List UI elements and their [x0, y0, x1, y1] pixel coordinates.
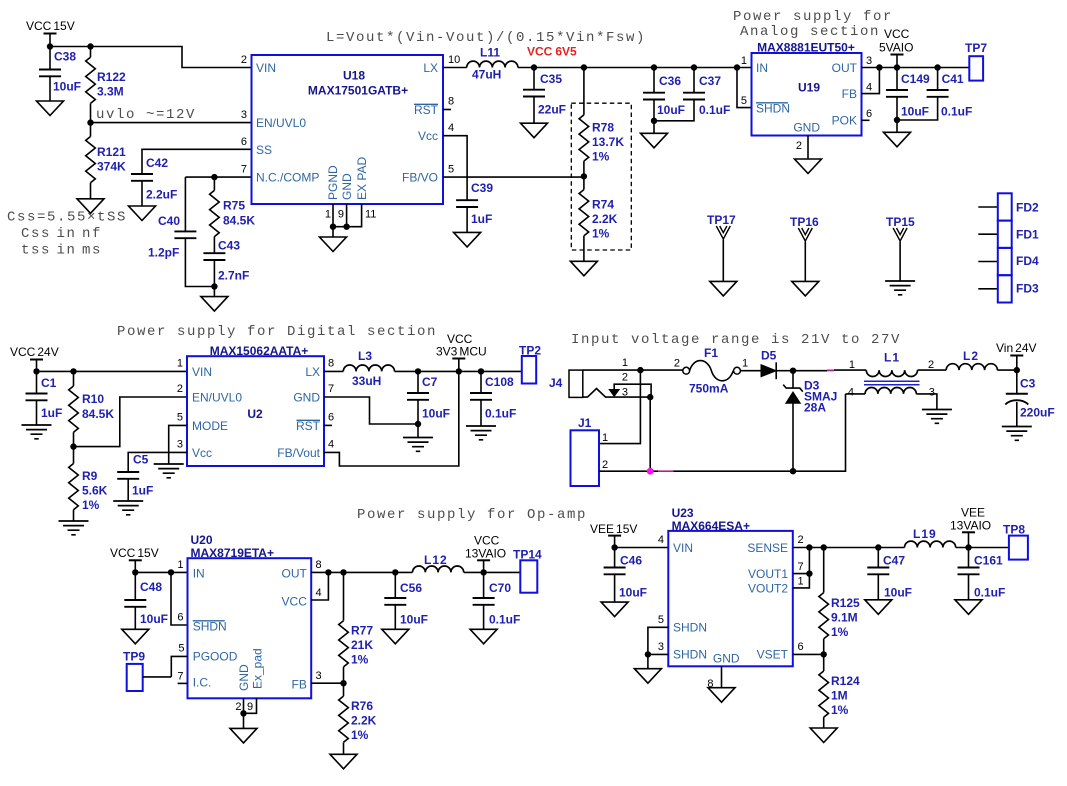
svg-text:10uF: 10uF — [53, 80, 81, 94]
node D3 top junction — [790, 368, 796, 374]
svg-text:R77: R77 — [351, 624, 373, 638]
svg-text:PGND: PGND — [326, 165, 340, 200]
svg-text:uvlo ~=12V: uvlo ~=12V — [96, 107, 196, 123]
U20 I.C. stub pin 7 — [178, 682, 188, 684]
svg-text:MAX17501GATB+: MAX17501GATB+ — [308, 84, 408, 98]
U2 pin names — [192, 365, 321, 460]
node SHDN junction — [168, 569, 174, 575]
earth ground below C7 — [403, 438, 433, 452]
resistor R76 2.2K 1% — [339, 683, 377, 754]
svg-text:8: 8 — [316, 559, 322, 571]
node EN junction — [87, 119, 93, 125]
regulator U23 MAX664ESA+ box — [668, 506, 793, 666]
node C56 junction — [392, 569, 398, 575]
earth ground below C1 — [22, 425, 52, 439]
wire Vcc pin 4 to C39 — [443, 136, 467, 201]
svg-text:5: 5 — [658, 614, 664, 626]
capacitor C5 1uF — [117, 453, 153, 502]
svg-text:Analog section: Analog section — [740, 24, 880, 40]
wire FB pin 3 — [311, 682, 343, 684]
node C48 junction — [132, 569, 138, 575]
ground below C48 — [122, 629, 149, 644]
svg-text:2: 2 — [177, 383, 183, 395]
svg-text:U20: U20 — [191, 533, 213, 547]
wire VEE to U23 VIN pin 4 — [615, 547, 669, 549]
VCC 24V bar — [30, 360, 43, 372]
node FB junction — [340, 680, 346, 686]
node D3 bottom junction — [790, 468, 796, 474]
svg-text:7: 7 — [177, 671, 183, 683]
svg-text:C47: C47 — [883, 554, 905, 568]
svg-text:C36: C36 — [659, 74, 681, 88]
ground below U19 — [795, 159, 822, 174]
wire to U19 SHDN pin 5 — [737, 68, 752, 108]
node ground rail magenta junction — [647, 468, 654, 475]
svg-text:1: 1 — [742, 358, 748, 370]
svg-text:VOUT2: VOUT2 — [748, 582, 788, 596]
ground below C36 — [641, 133, 668, 148]
svg-text:Vcc: Vcc — [418, 129, 438, 143]
wire L12 to C70 — [464, 571, 521, 573]
svg-text:4: 4 — [658, 534, 664, 546]
svg-text:C7: C7 — [422, 375, 438, 389]
wire to U18 VIN pin 2 — [91, 47, 252, 68]
svg-text:FD3: FD3 — [1016, 282, 1039, 296]
wire R122 bottom to EN junction — [90, 103, 92, 122]
svg-text:Ex_pad: Ex_pad — [251, 648, 265, 689]
svg-text:SHDN: SHDN — [756, 102, 790, 116]
node C37 junction — [691, 64, 697, 70]
wire TP9 to PGOOD — [143, 676, 172, 678]
svg-text:U18: U18 — [343, 69, 365, 83]
earth ground below C3 — [1002, 427, 1032, 441]
node C3 junction — [1014, 367, 1020, 373]
wire ground rail to D3 — [654, 470, 794, 472]
node R125 junction — [821, 544, 827, 550]
svg-text:5: 5 — [741, 95, 747, 107]
resistor R121 374K — [86, 123, 126, 199]
wire PGOOD pin 5 — [171, 656, 187, 677]
svg-text:EX PAD: EX PAD — [355, 157, 369, 200]
svg-text:J4: J4 — [549, 376, 563, 390]
svg-text:TP16: TP16 — [790, 215, 819, 229]
test point TP8 — [1003, 523, 1028, 560]
svg-text:2: 2 — [796, 140, 802, 152]
svg-text:4: 4 — [866, 82, 872, 94]
note uvlo — [96, 107, 196, 123]
note Css formula — [7, 210, 127, 259]
svg-text:R78: R78 — [592, 121, 614, 135]
svg-text:9: 9 — [247, 701, 253, 713]
J4 pin numbers — [622, 357, 628, 398]
node C1 junction — [33, 368, 39, 374]
ground below C47 — [865, 600, 892, 615]
svg-text:U23: U23 — [672, 506, 694, 520]
inductor L1 upper winding — [849, 351, 934, 377]
regulator U2 MAX15062AATA+ box — [187, 344, 324, 466]
svg-text:POK: POK — [832, 114, 857, 128]
VCC 3V3MCU bar — [452, 359, 465, 372]
svg-text:5.6K: 5.6K — [82, 484, 108, 498]
svg-text:3: 3 — [622, 386, 628, 398]
svg-text:10uF: 10uF — [657, 103, 685, 117]
node C7 bottom junction — [415, 421, 421, 438]
test point TP9 — [123, 650, 145, 692]
VCC 5VAIO bar — [891, 55, 904, 68]
svg-text:C37: C37 — [699, 74, 721, 88]
svg-text:6: 6 — [798, 641, 804, 653]
ground below R74 — [570, 261, 597, 276]
svg-text:SHDN: SHDN — [193, 620, 227, 634]
svg-text:TP7: TP7 — [965, 41, 987, 55]
svg-text:3: 3 — [241, 109, 247, 121]
wire fuse to D5 — [740, 370, 761, 372]
svg-text:3V3MCU: 3V3MCU — [436, 345, 487, 359]
svg-text:2: 2 — [235, 701, 241, 713]
svg-text:1: 1 — [798, 576, 804, 588]
resistor R122 3.3M — [86, 47, 126, 104]
svg-text:N.C./COMP: N.C./COMP — [256, 171, 319, 185]
test point TP16 — [790, 215, 819, 296]
net VCC 5VAIO label — [879, 27, 913, 55]
resistor R75 84.5K — [210, 177, 256, 236]
svg-text:VCC: VCC — [474, 534, 500, 548]
U20 pin names — [193, 567, 308, 692]
svg-text:VCC: VCC — [884, 27, 910, 41]
inductor L3 33uH — [343, 349, 394, 388]
svg-text:C161: C161 — [974, 554, 1003, 568]
svg-text:1%: 1% — [831, 703, 849, 717]
capacitor C56 10uF — [384, 572, 428, 629]
note inductor formula — [326, 30, 646, 46]
ground below C42 — [129, 206, 156, 221]
svg-text:28A: 28A — [804, 401, 826, 415]
wire rail C7 to C108 — [418, 370, 481, 372]
svg-text:R121: R121 — [97, 145, 126, 159]
resistor R10 84.5K — [69, 371, 115, 446]
ground below R124 — [810, 728, 837, 743]
inductor L11 47uH — [467, 46, 518, 82]
svg-text:1M: 1M — [831, 689, 848, 703]
inductor L1 lower winding — [848, 387, 935, 399]
svg-text:FB/VO: FB/VO — [402, 171, 438, 185]
svg-text:1%: 1% — [592, 227, 610, 241]
note digital section title — [117, 324, 437, 340]
svg-text:Vin24V: Vin24V — [996, 341, 1037, 355]
svg-text:R74: R74 — [592, 198, 614, 212]
wire L1 pin 2 to L2 — [918, 369, 947, 371]
U18 ground pins — [330, 204, 362, 237]
svg-text:C42: C42 — [146, 156, 168, 170]
ground below C149 — [884, 132, 911, 147]
node divider junction — [581, 173, 587, 179]
capacitor C1 1uF — [26, 371, 63, 425]
net VEE 13VAIO label — [950, 506, 991, 533]
test point TP14 — [513, 548, 542, 593]
test point TP17 — [707, 213, 737, 296]
wire rail to TP2 — [481, 370, 522, 372]
svg-text:0.1uF: 0.1uF — [699, 103, 730, 117]
VEE15V bar — [608, 536, 621, 548]
svg-text:C35: C35 — [540, 72, 562, 86]
wire L19 to C161 — [956, 547, 1009, 549]
capacitor C37 0.1uF — [654, 68, 730, 121]
svg-text:5VAIO: 5VAIO — [879, 41, 913, 55]
capacitor C7 10uF — [407, 371, 450, 424]
node sleeve junction — [647, 394, 653, 400]
U18 pin names — [256, 61, 439, 200]
wire to L1 pin 1 — [834, 369, 866, 371]
svg-text:2.7nF: 2.7nF — [218, 269, 249, 283]
test point TP15 — [885, 215, 915, 295]
connector J1 — [571, 416, 609, 486]
capacitor C41 0.1uF — [897, 68, 972, 121]
svg-text:1%: 1% — [351, 653, 369, 667]
node FB junction — [876, 64, 882, 70]
U2 RST stub pin 6 — [324, 424, 332, 426]
wire SENSE rail — [793, 547, 905, 549]
wire VSET pin 6 — [793, 653, 824, 655]
svg-text:5: 5 — [177, 412, 183, 424]
svg-text:2.2K: 2.2K — [351, 714, 377, 728]
net VCC 3V3MCU label — [436, 332, 487, 359]
wire FB/Vout pin 4 feedback — [324, 371, 459, 466]
wire OUT rail — [311, 571, 412, 573]
svg-text:TP8: TP8 — [1003, 523, 1025, 537]
svg-text:9.1M: 9.1M — [831, 611, 858, 625]
svg-text:0.1uF: 0.1uF — [974, 586, 1005, 600]
wire J4 tip to fuse — [583, 369, 683, 371]
resistor R74 2.2K 1% — [579, 176, 618, 261]
svg-text:C46: C46 — [620, 554, 642, 568]
svg-text:47uH: 47uH — [472, 68, 501, 82]
svg-text:10uF: 10uF — [400, 613, 428, 627]
svg-text:PGOOD: PGOOD — [193, 650, 238, 664]
svg-text:C70: C70 — [489, 581, 511, 595]
U23 pin numbers — [658, 534, 804, 690]
U19 pin names — [756, 61, 858, 135]
svg-text:R125: R125 — [831, 596, 860, 610]
wire VCC24V rail — [37, 370, 188, 372]
svg-text:R124: R124 — [831, 674, 860, 688]
svg-text:C40: C40 — [158, 214, 180, 228]
svg-text:10uF: 10uF — [140, 612, 168, 626]
svg-text:10uF: 10uF — [619, 586, 647, 600]
VCC 13VAIO bar — [477, 560, 490, 572]
wire VCC rail to U20 IN — [135, 571, 187, 573]
svg-text:IN: IN — [193, 567, 205, 581]
inductor L19 — [905, 527, 956, 548]
wire VCC6V5 rail to R78 — [583, 68, 585, 115]
node R122 top junction — [87, 43, 93, 49]
wire junction to EN pin 2 — [74, 397, 188, 447]
node C7 junction — [415, 368, 421, 374]
net VCC 24V label — [10, 345, 59, 359]
svg-text:GND: GND — [237, 664, 251, 691]
capacitor C47 10uF — [867, 548, 912, 600]
regulator U20 MAX8719ETA+ box — [188, 533, 312, 698]
earth ground below C108 — [466, 426, 496, 440]
node VSET junction — [821, 651, 827, 657]
diode D3 SMAJ 28A — [783, 371, 837, 472]
resistor R9 5.6K 1% — [69, 447, 108, 521]
svg-text:C56: C56 — [400, 581, 422, 595]
node R10 R9 junction — [70, 443, 76, 449]
svg-text:FB: FB — [292, 678, 307, 692]
ground below C161 — [955, 600, 982, 615]
Vin bar — [1010, 356, 1023, 371]
svg-text:C3: C3 — [1020, 377, 1036, 391]
svg-text:IN: IN — [756, 61, 768, 75]
svg-text:6: 6 — [241, 136, 247, 148]
svg-text:1: 1 — [622, 357, 628, 369]
svg-text:VCC24V: VCC24V — [10, 345, 59, 359]
svg-text:LX: LX — [305, 365, 320, 379]
svg-text:1uF: 1uF — [132, 484, 153, 498]
svg-text:GND: GND — [293, 391, 320, 405]
wire L1 pin 3 to ground — [916, 394, 937, 410]
svg-text:L19: L19 — [913, 527, 937, 541]
svg-text:C43: C43 — [218, 239, 240, 253]
svg-text:10uF: 10uF — [901, 105, 929, 119]
wire magenta highlighted segment — [658, 470, 674, 472]
svg-text:9: 9 — [338, 209, 344, 221]
svg-text:R10: R10 — [82, 392, 104, 406]
capacitor C3 220uF polarized — [1005, 370, 1054, 426]
svg-text:L11: L11 — [480, 46, 500, 60]
net Vin 24V label — [996, 341, 1037, 355]
svg-text:L2: L2 — [963, 349, 979, 363]
svg-text:1uF: 1uF — [41, 406, 62, 420]
svg-text:VEE: VEE — [961, 506, 985, 520]
svg-text:3: 3 — [658, 641, 664, 653]
VEE 13VAIO bar — [962, 532, 975, 547]
earth ground below R9 — [59, 521, 89, 535]
svg-text:GND: GND — [340, 173, 354, 200]
svg-text:TP17: TP17 — [707, 213, 736, 227]
wire rail to U19 — [694, 67, 752, 69]
svg-text:4: 4 — [848, 387, 854, 399]
svg-text:C48: C48 — [140, 580, 162, 594]
wire rail to C37 — [654, 67, 694, 69]
svg-text:750mA: 750mA — [689, 382, 729, 396]
note input voltage title — [571, 332, 901, 348]
node C108 junction — [478, 368, 484, 374]
svg-text:0.1uF: 0.1uF — [941, 105, 972, 119]
node C70 junction — [480, 569, 486, 575]
node C149 junction — [894, 64, 900, 70]
wire VCC pin 4 up — [311, 572, 328, 600]
svg-text:84.5K: 84.5K — [223, 214, 255, 228]
svg-text:C39: C39 — [471, 181, 493, 195]
U20 ground pins 2 and 9 — [240, 698, 256, 728]
J4 switch arrow — [609, 384, 651, 397]
svg-text:4: 4 — [316, 587, 322, 599]
node C40 C43 junction — [211, 283, 217, 296]
svg-text:4: 4 — [448, 122, 454, 134]
svg-text:Cssinnf: Cssinnf — [21, 226, 102, 242]
svg-text:U19: U19 — [798, 81, 820, 95]
node R77 junction — [340, 569, 346, 575]
wire magenta segment before L1 — [827, 369, 834, 371]
node VCC junction — [325, 569, 331, 575]
diode D5 — [761, 349, 777, 380]
svg-text:10uF: 10uF — [884, 586, 912, 600]
svg-text:L12: L12 — [424, 553, 448, 567]
svg-text:OUT: OUT — [832, 61, 858, 75]
U23 pin names — [673, 541, 789, 666]
svg-text:13VAIO: 13VAIO — [465, 547, 506, 561]
node J4 tip junction — [637, 367, 643, 373]
wire L1 lower left — [846, 393, 866, 395]
node C36 junction — [651, 64, 657, 70]
fiducial FD2 — [978, 193, 1039, 220]
wire VOUT2 pin 1 — [793, 574, 810, 588]
svg-text:6: 6 — [328, 412, 334, 424]
U19 POK stub pin 6 — [862, 119, 870, 121]
wire SS pin 6 to C42 — [142, 149, 252, 174]
svg-text:SS: SS — [256, 143, 272, 157]
note op-amp section title — [357, 507, 587, 523]
wire VOUT1 pin 7 — [793, 548, 810, 574]
ground below C43 — [201, 297, 228, 312]
node COMP junction — [211, 174, 217, 180]
earth ground below C5 — [113, 501, 143, 515]
svg-text:L3: L3 — [358, 349, 372, 363]
connector J4 barrel jack — [549, 370, 583, 397]
svg-text:6: 6 — [866, 108, 872, 120]
dashed box around divider — [571, 103, 631, 250]
svg-text:1: 1 — [177, 358, 183, 370]
svg-text:1.2pF: 1.2pF — [148, 246, 179, 260]
ground below R76 — [330, 754, 357, 769]
svg-text:2.2uF: 2.2uF — [146, 188, 177, 202]
wire L11 to C35 — [518, 67, 534, 69]
op-amp U18 MAX17501GATB+ box — [252, 55, 444, 204]
svg-text:D5: D5 — [761, 349, 777, 363]
svg-text:7: 7 — [241, 164, 247, 176]
node C47 junction — [875, 544, 881, 550]
wire GND pin 7 to C7 bottom — [324, 397, 418, 424]
svg-text:VIN: VIN — [256, 61, 276, 75]
svg-text:2: 2 — [241, 54, 247, 66]
svg-text:SENSE: SENSE — [747, 541, 788, 555]
svg-text:13.7K: 13.7K — [592, 135, 624, 149]
node VOUT junction — [806, 570, 812, 576]
earth ground below L1 — [922, 410, 952, 424]
svg-text:VIN: VIN — [192, 365, 212, 379]
node C35 junction — [531, 64, 537, 70]
svg-text:Power supply for: Power supply for — [733, 9, 893, 25]
svg-text:R75: R75 — [223, 199, 245, 213]
svg-text:C38: C38 — [54, 50, 76, 64]
svg-text:F1: F1 — [704, 346, 718, 360]
svg-text:1: 1 — [602, 432, 608, 444]
wire FB/VO to divider — [443, 176, 584, 178]
node 3V3 junction — [456, 368, 462, 374]
svg-text:5: 5 — [448, 164, 454, 176]
capacitor C70 0.1uF — [473, 572, 521, 629]
capacitor C161 0.1uF — [958, 548, 1006, 600]
svg-text:84.5K: 84.5K — [82, 407, 114, 421]
svg-text:VEE15V: VEE15V — [590, 522, 637, 536]
svg-text:3: 3 — [177, 439, 183, 451]
wire SHDN pin 3 — [648, 653, 668, 655]
svg-text:SHDN: SHDN — [673, 648, 707, 662]
ground below U18 — [320, 237, 347, 252]
VCC15V bar U20 — [129, 560, 142, 572]
capacitor C43 2.7nF — [203, 237, 249, 287]
